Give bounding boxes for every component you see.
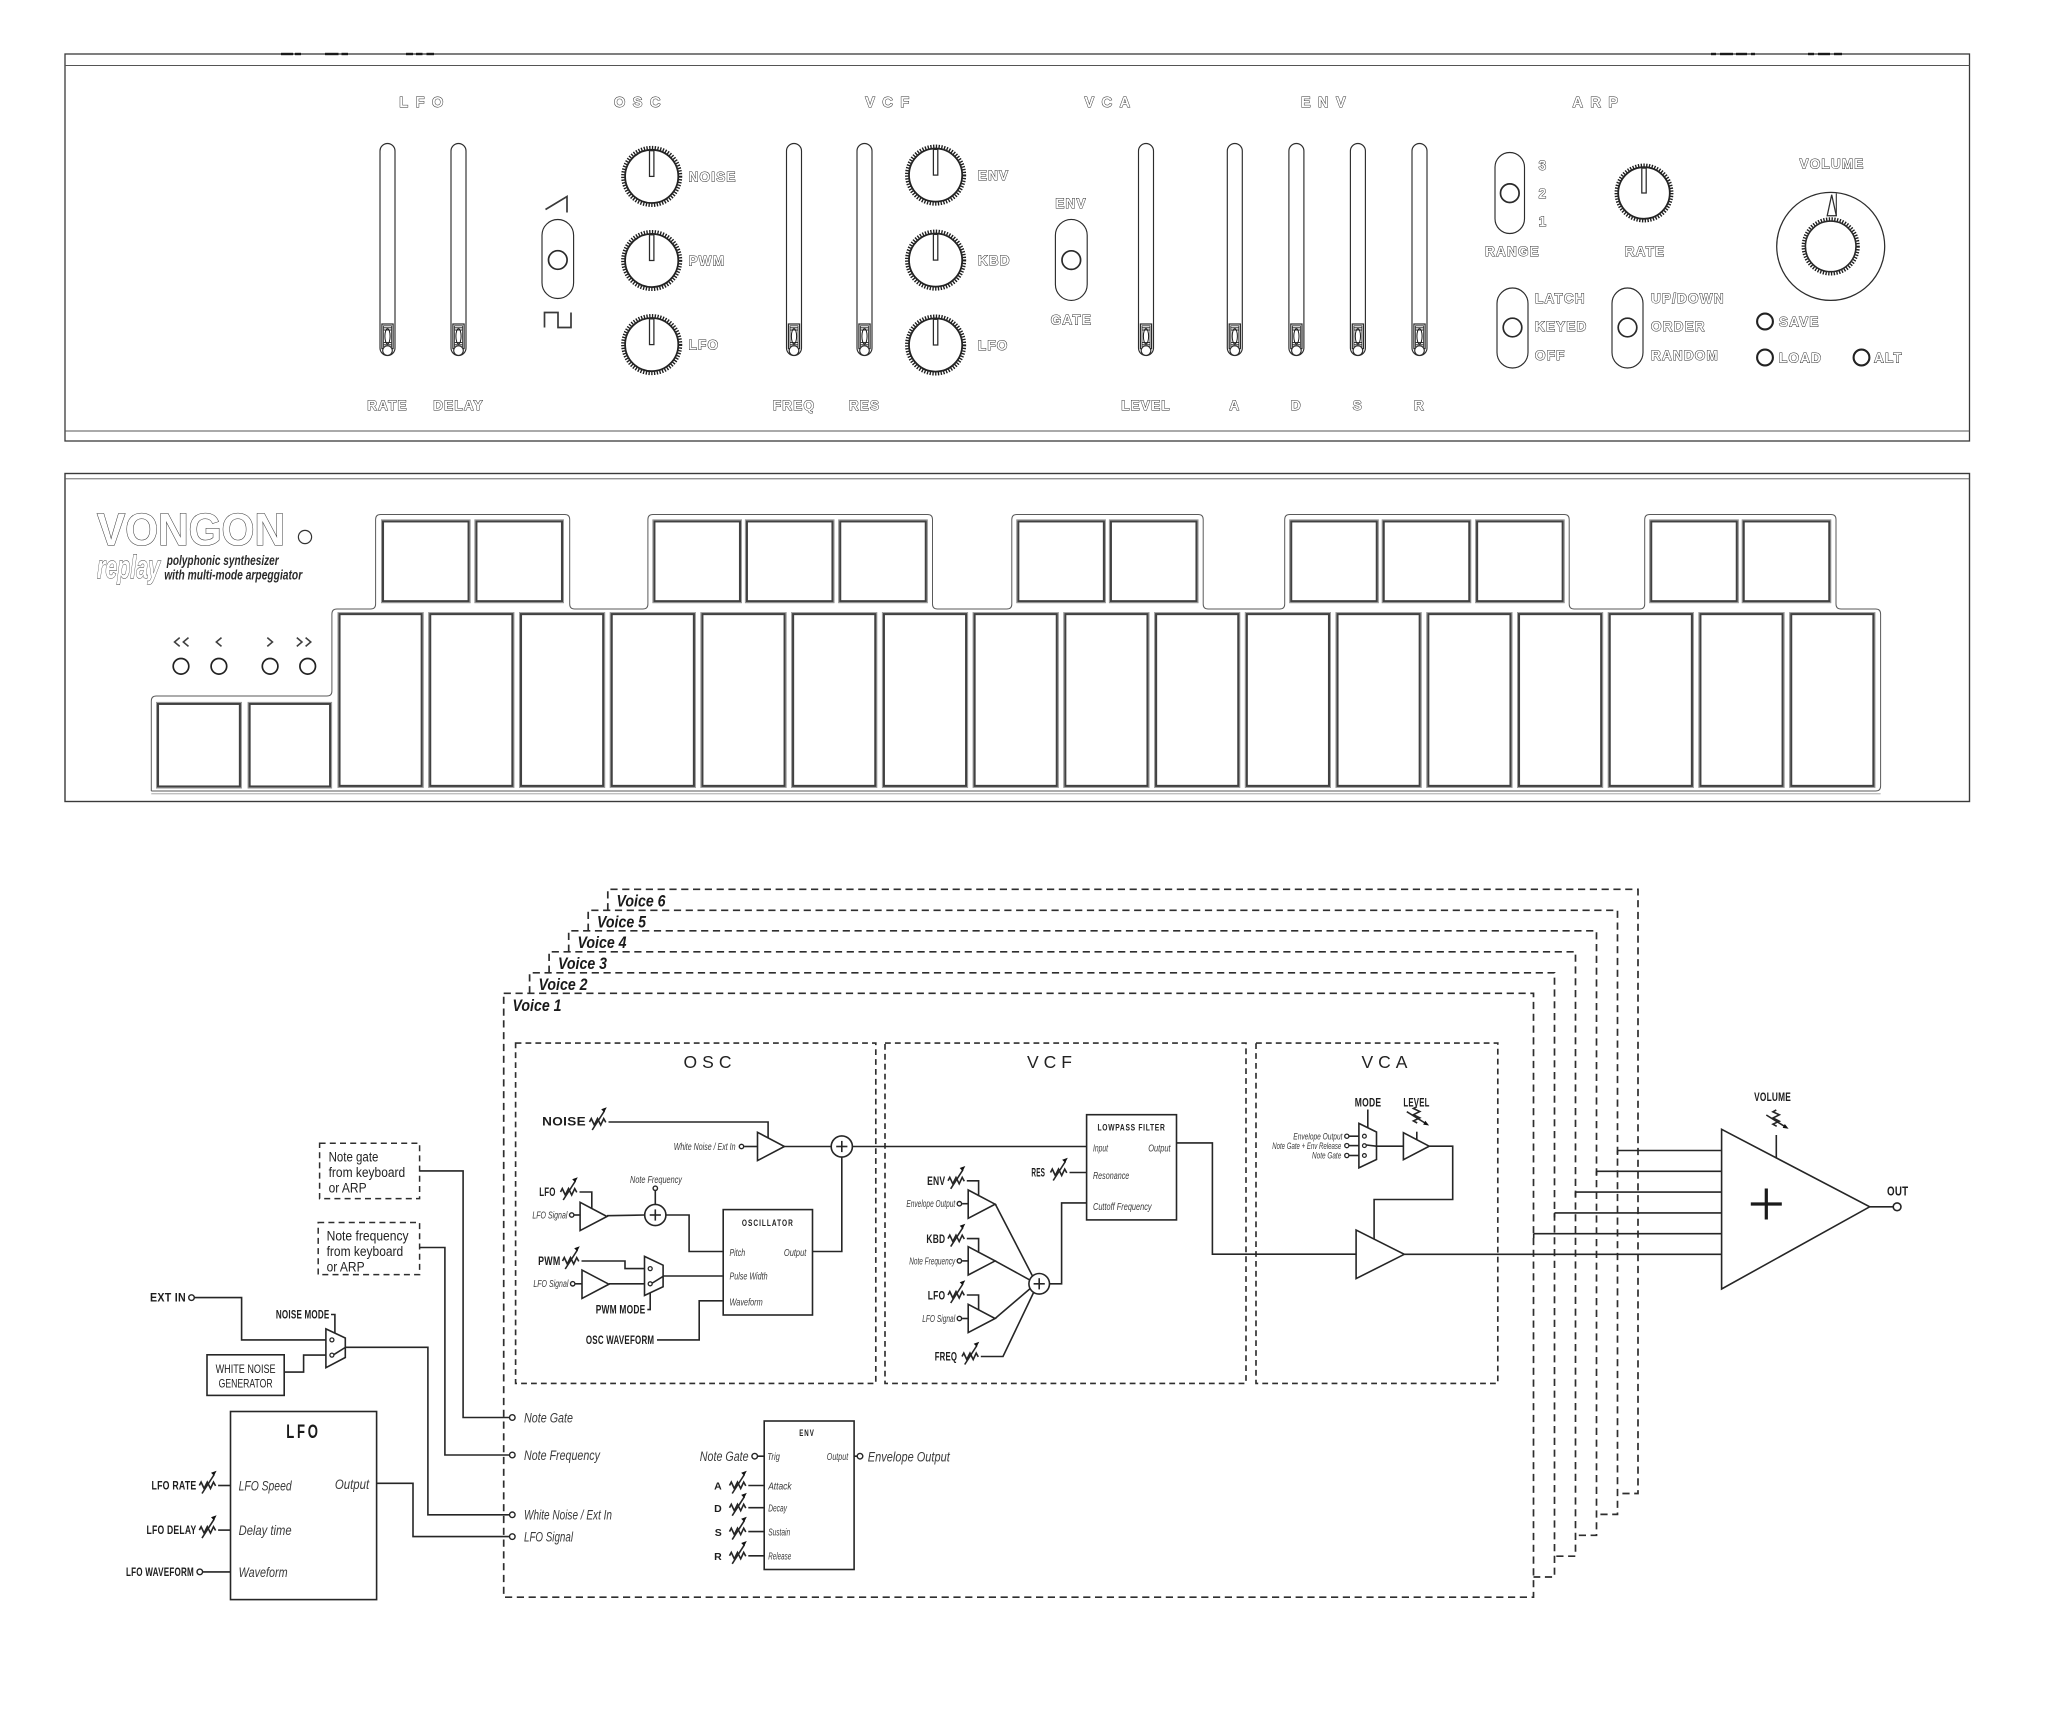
svg-text:R: R xyxy=(1414,398,1425,413)
svg-text:LOAD: LOAD xyxy=(1779,351,1822,366)
svg-text:EXT IN: EXT IN xyxy=(150,1293,186,1305)
svg-text:from keyboard: from keyboard xyxy=(327,1244,404,1259)
svg-text:R: R xyxy=(714,1551,722,1563)
svg-text:LFO Signal: LFO Signal xyxy=(524,1529,574,1544)
svg-text:D: D xyxy=(714,1503,722,1515)
svg-text:Voice 3: Voice 3 xyxy=(558,955,607,973)
svg-text:KBD: KBD xyxy=(926,1234,945,1246)
svg-text:NOISE: NOISE xyxy=(689,170,737,185)
svg-text:ARP: ARP xyxy=(1572,95,1625,111)
svg-text:FREQ: FREQ xyxy=(935,1351,958,1363)
svg-text:1: 1 xyxy=(1539,214,1548,229)
svg-text:Envelope Output: Envelope Output xyxy=(906,1199,956,1210)
svg-text:LFO Signal: LFO Signal xyxy=(532,1210,568,1221)
svg-text:LFO: LFO xyxy=(689,338,720,353)
svg-text:GENERATOR: GENERATOR xyxy=(219,1376,273,1390)
svg-text:from keyboard: from keyboard xyxy=(329,1165,406,1180)
svg-text:Trig: Trig xyxy=(767,1452,780,1463)
svg-text:polyphonic synthesizer: polyphonic synthesizer xyxy=(166,553,279,568)
svg-text:Delay time: Delay time xyxy=(239,1523,292,1538)
svg-text:LFO Signal: LFO Signal xyxy=(533,1279,569,1290)
svg-text:ENV: ENV xyxy=(927,1176,945,1188)
svg-text:LFO: LFO xyxy=(399,95,451,111)
svg-text:ENV: ENV xyxy=(1055,196,1086,211)
svg-text:ENV: ENV xyxy=(799,1428,815,1439)
svg-text:Note Frequency: Note Frequency xyxy=(630,1175,683,1186)
svg-text:LFO: LFO xyxy=(286,1422,321,1443)
svg-text:Note Gate + Env Release: Note Gate + Env Release xyxy=(1272,1141,1341,1151)
svg-text:White Noise / Ext In: White Noise / Ext In xyxy=(524,1508,612,1523)
svg-text:RANDOM: RANDOM xyxy=(1651,348,1719,363)
svg-text:LFO DELAY: LFO DELAY xyxy=(147,1525,197,1537)
svg-text:WHITE NOISE: WHITE NOISE xyxy=(216,1362,276,1376)
svg-text:VONGON: VONGON xyxy=(97,504,285,555)
svg-text:RES: RES xyxy=(1031,1167,1045,1179)
svg-text:White Noise / Ext In: White Noise / Ext In xyxy=(674,1142,736,1153)
svg-text:FREQ: FREQ xyxy=(773,398,815,413)
svg-text:Input: Input xyxy=(1093,1143,1109,1154)
svg-text:OSC: OSC xyxy=(684,1052,737,1072)
svg-text:Voice 1: Voice 1 xyxy=(513,997,562,1015)
svg-text:LFO: LFO xyxy=(539,1187,556,1199)
svg-text:MODE: MODE xyxy=(1355,1098,1382,1110)
svg-text:Output: Output xyxy=(335,1477,370,1492)
svg-text:RATE: RATE xyxy=(1625,244,1666,259)
svg-text:OSC: OSC xyxy=(614,95,668,111)
svg-text:S: S xyxy=(1353,398,1363,413)
svg-text:LFO: LFO xyxy=(978,338,1009,353)
svg-text:ENV: ENV xyxy=(1301,95,1353,111)
svg-text:Voice 4: Voice 4 xyxy=(578,934,627,952)
svg-text:LOWPASS FILTER: LOWPASS FILTER xyxy=(1098,1123,1166,1134)
svg-text:Note Gate: Note Gate xyxy=(1312,1151,1341,1161)
svg-text:OSCILLATOR: OSCILLATOR xyxy=(742,1218,794,1229)
svg-text:VCF: VCF xyxy=(1027,1052,1077,1072)
svg-text:KEYED: KEYED xyxy=(1535,319,1588,334)
svg-text:NOISE MODE: NOISE MODE xyxy=(276,1310,330,1322)
svg-text:VOLUME: VOLUME xyxy=(1754,1092,1791,1104)
svg-text:RATE: RATE xyxy=(367,398,408,413)
svg-text:LFO WAVEFORM: LFO WAVEFORM xyxy=(126,1567,194,1579)
svg-text:Waveform: Waveform xyxy=(730,1297,763,1308)
svg-text:Output: Output xyxy=(1148,1143,1171,1154)
svg-text:Note Frequency: Note Frequency xyxy=(909,1256,956,1267)
svg-text:Sustain: Sustain xyxy=(768,1527,790,1538)
svg-text:LFO RATE: LFO RATE xyxy=(152,1481,197,1493)
svg-text:PWM: PWM xyxy=(689,254,726,269)
svg-text:LFO Speed: LFO Speed xyxy=(239,1479,292,1494)
svg-text:Attack: Attack xyxy=(767,1481,792,1492)
svg-text:ENV: ENV xyxy=(978,168,1009,183)
svg-text:DELAY: DELAY xyxy=(433,398,484,413)
svg-text:KBD: KBD xyxy=(978,253,1011,268)
svg-text:OUT: OUT xyxy=(1887,1185,1908,1199)
svg-text:GATE: GATE xyxy=(1051,313,1092,328)
svg-text:Envelope Output: Envelope Output xyxy=(868,1450,951,1465)
svg-text:Pitch: Pitch xyxy=(730,1248,746,1259)
svg-text:LEVEL: LEVEL xyxy=(1121,398,1171,413)
svg-text:Pulse Width: Pulse Width xyxy=(730,1271,768,1282)
svg-text:Note Gate: Note Gate xyxy=(700,1449,749,1464)
svg-text:VCF: VCF xyxy=(865,95,917,111)
svg-text:NOISE: NOISE xyxy=(542,1116,586,1128)
svg-text:Resonance: Resonance xyxy=(1093,1171,1130,1182)
svg-text:Output: Output xyxy=(784,1248,807,1259)
svg-text:replay: replay xyxy=(97,549,161,585)
svg-text:VCA: VCA xyxy=(1362,1052,1413,1072)
svg-text:or ARP: or ARP xyxy=(329,1181,367,1196)
svg-text:PWM: PWM xyxy=(538,1256,560,1268)
svg-text:Note Gate: Note Gate xyxy=(524,1410,573,1425)
svg-text:Voice 2: Voice 2 xyxy=(539,976,588,994)
svg-text:Note Frequency: Note Frequency xyxy=(524,1448,601,1463)
svg-text:UP/DOWN: UP/DOWN xyxy=(1651,291,1725,306)
svg-text:Output: Output xyxy=(827,1452,849,1463)
svg-text:VCA: VCA xyxy=(1084,95,1137,111)
svg-text:PWM MODE: PWM MODE xyxy=(596,1305,646,1317)
svg-text:LFO Signal: LFO Signal xyxy=(922,1314,956,1325)
svg-text:Cuttoff Frequency: Cuttoff Frequency xyxy=(1093,1202,1152,1213)
svg-text:Voice 5: Voice 5 xyxy=(597,914,647,932)
svg-text:OSC WAVEFORM: OSC WAVEFORM xyxy=(586,1335,654,1347)
svg-text:ORDER: ORDER xyxy=(1651,319,1706,334)
svg-text:ALT: ALT xyxy=(1874,351,1903,366)
svg-text:A: A xyxy=(1229,398,1240,413)
svg-text:Release: Release xyxy=(768,1552,791,1563)
svg-text:SAVE: SAVE xyxy=(1779,315,1820,330)
svg-text:LFO: LFO xyxy=(928,1290,946,1302)
svg-text:RANGE: RANGE xyxy=(1485,244,1540,259)
svg-text:3: 3 xyxy=(1539,158,1548,173)
svg-text:with multi-mode arpeggiator: with multi-mode arpeggiator xyxy=(164,568,303,583)
svg-text:Note frequency: Note frequency xyxy=(327,1229,409,1244)
svg-text:D: D xyxy=(1291,398,1302,413)
svg-text:S: S xyxy=(715,1527,722,1539)
svg-text:Decay: Decay xyxy=(768,1504,787,1515)
svg-text:LATCH: LATCH xyxy=(1535,291,1586,306)
svg-text:or ARP: or ARP xyxy=(327,1260,365,1275)
svg-text:VOLUME: VOLUME xyxy=(1800,157,1865,172)
svg-text:RES: RES xyxy=(849,398,880,413)
svg-text:A: A xyxy=(714,1481,722,1493)
svg-text:2: 2 xyxy=(1539,186,1548,201)
svg-text:Waveform: Waveform xyxy=(239,1565,288,1580)
svg-text:OFF: OFF xyxy=(1535,348,1566,363)
svg-text:Note gate: Note gate xyxy=(329,1150,379,1165)
svg-text:Voice 6: Voice 6 xyxy=(617,893,667,911)
